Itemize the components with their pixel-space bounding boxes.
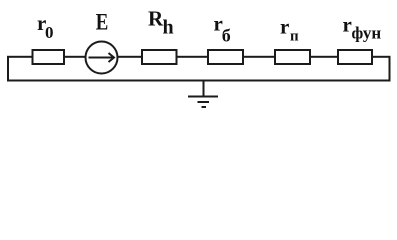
svg-text:п: п [290,29,299,45]
svg-text:h: h [163,17,174,39]
svg-text:r: r [280,15,289,39]
svg-text:фун: фун [352,24,382,43]
svg-text:б: б [222,26,231,46]
svg-text:0: 0 [45,23,54,42]
svg-text:r: r [343,13,352,37]
svg-text:E: E [96,9,109,36]
